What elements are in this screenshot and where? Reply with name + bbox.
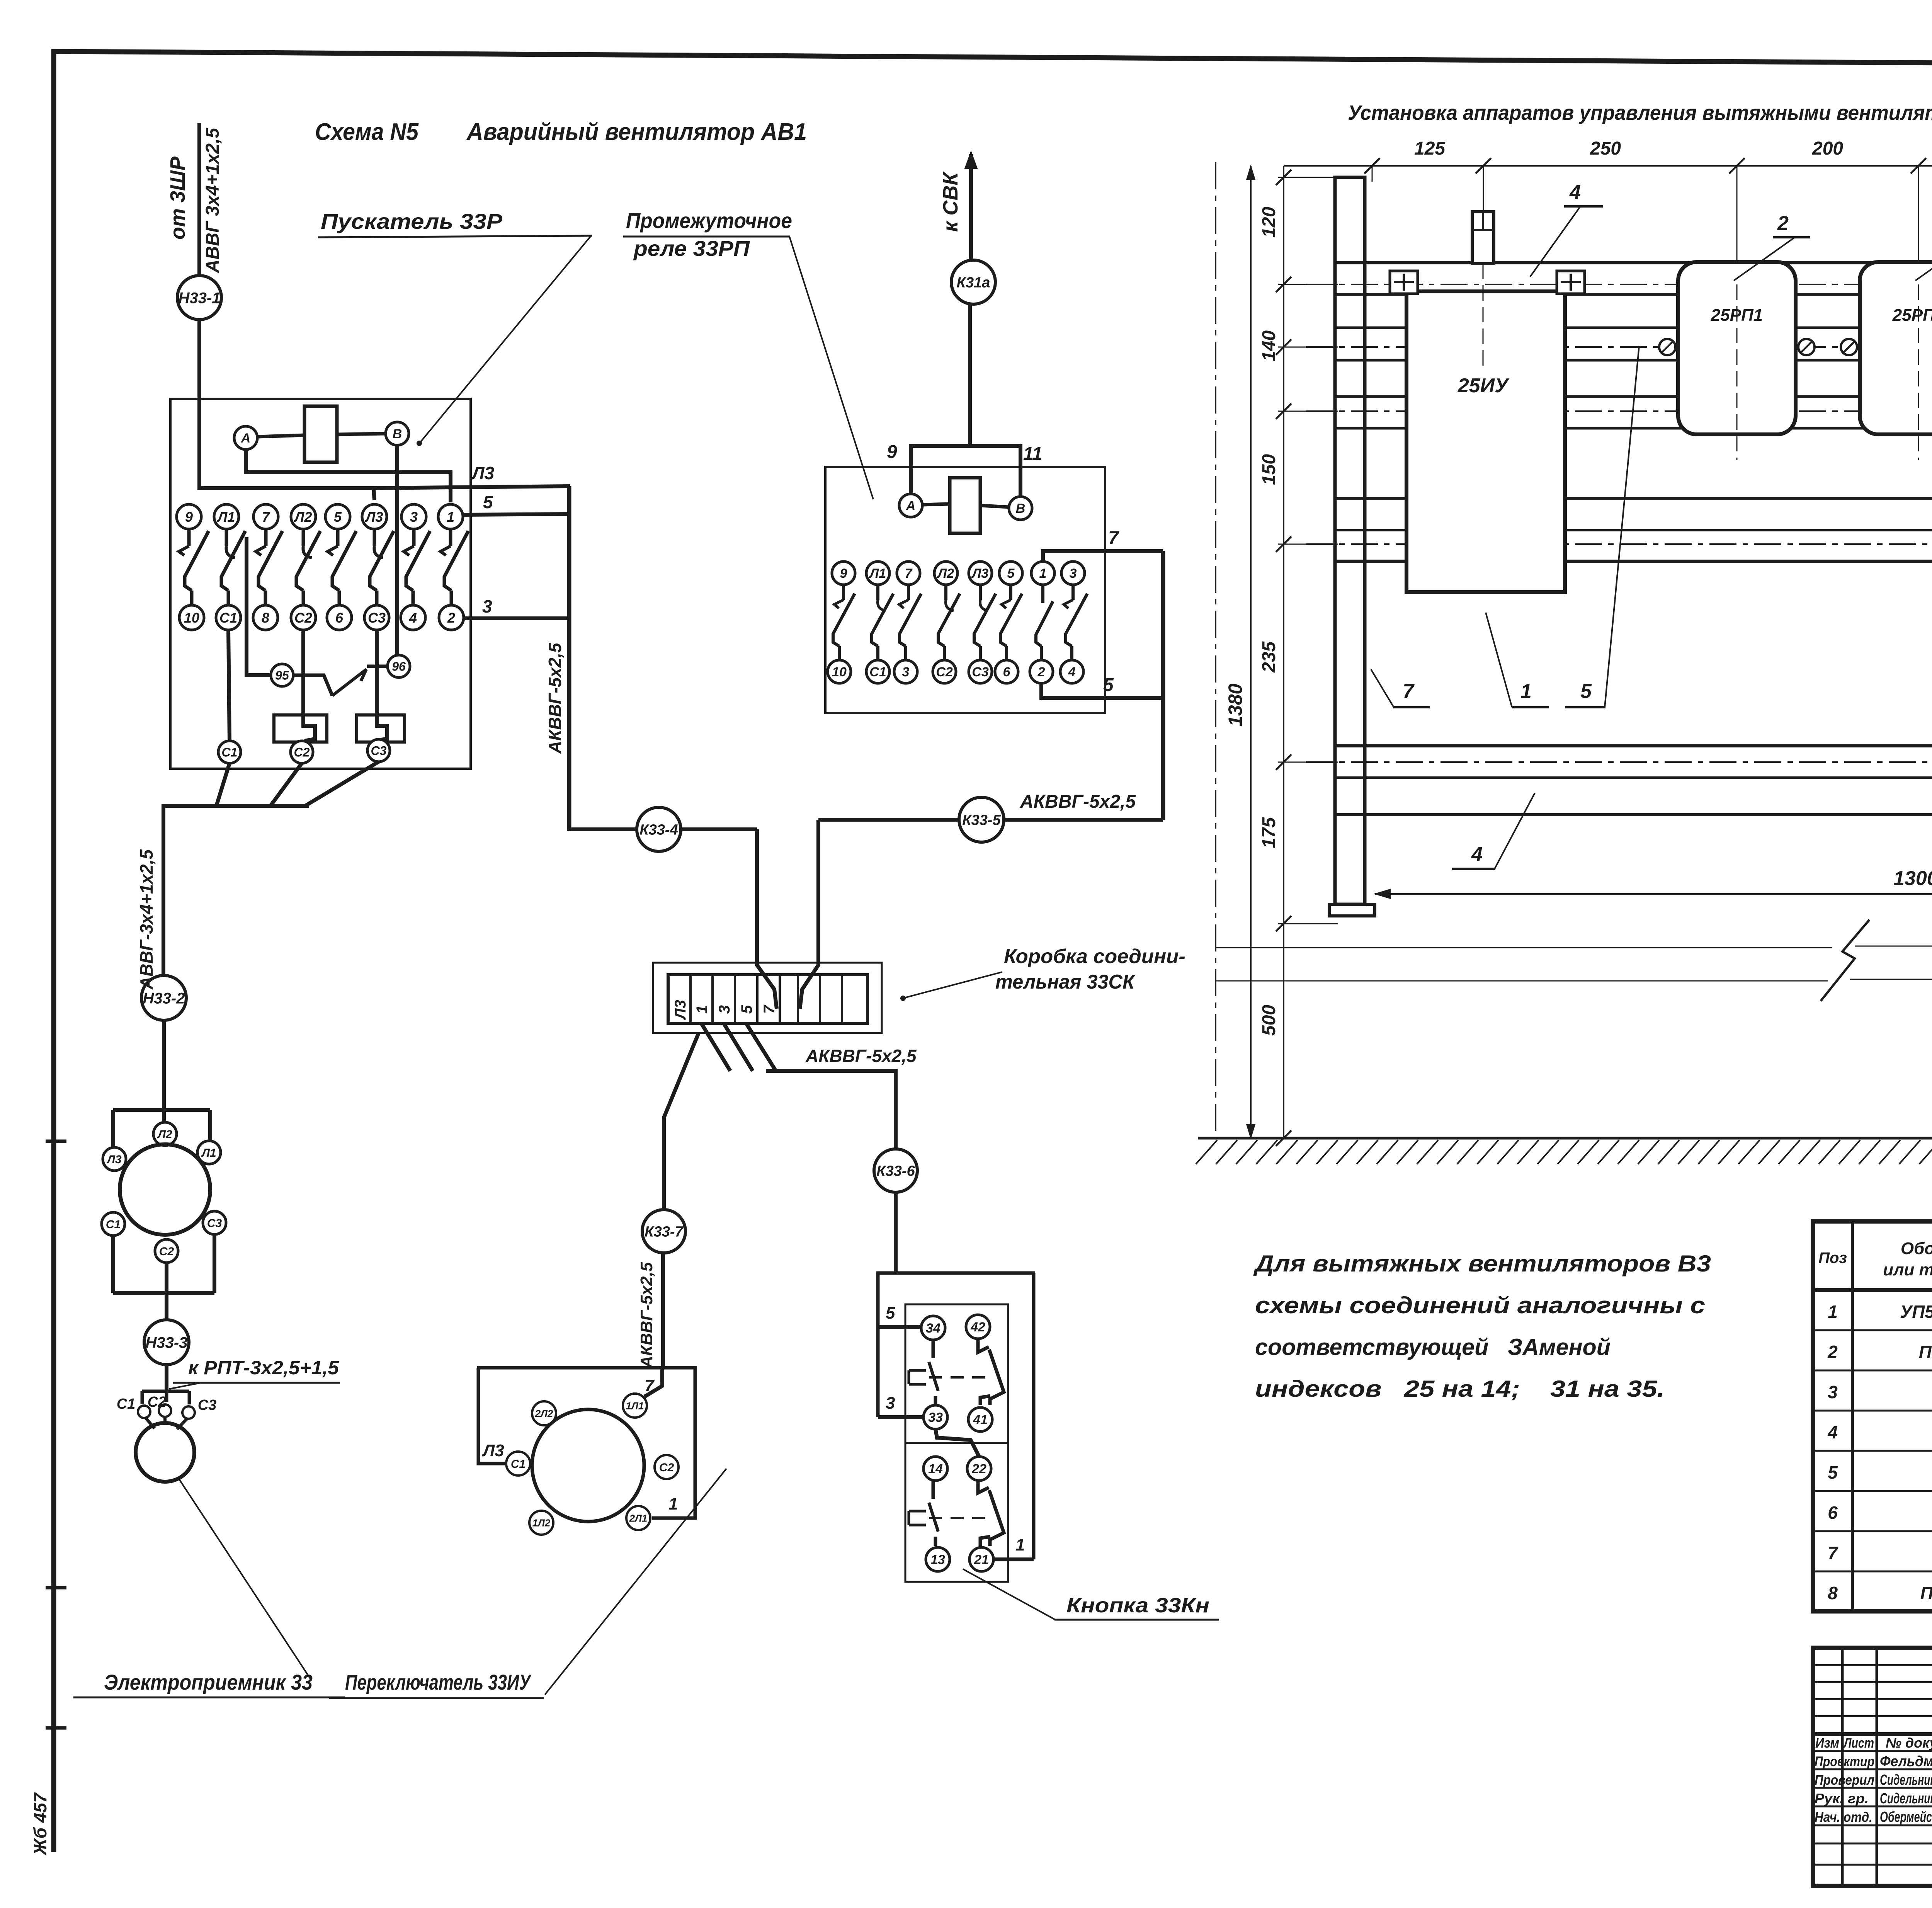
title block frame: [1813, 1648, 1932, 1886]
mounting rail band C: [1336, 395, 1932, 398]
svg-text:Поз: Поз: [1818, 1249, 1847, 1266]
terminal B: [386, 422, 409, 445]
extension lines from apparatus centers: [1372, 166, 1373, 182]
leader to starter box: [420, 237, 590, 443]
relay coil: [950, 478, 980, 533]
svg-text:34: 34: [926, 1321, 940, 1336]
svg-text:С3: С3: [207, 1217, 222, 1230]
svg-text:С1: С1: [117, 1396, 136, 1412]
cable bus to junction box: [567, 486, 571, 831]
wire B down to 96: [395, 445, 399, 655]
svg-text:С3: С3: [368, 610, 386, 626]
svg-text:от 3ШР: от 3ШР: [166, 156, 189, 240]
svg-text:Л3: Л3: [482, 1441, 504, 1460]
svg-text:13: 13: [930, 1552, 945, 1567]
cable marker N33-3: [144, 1320, 189, 1365]
svg-text:4: 4: [1569, 181, 1581, 204]
aux contact 96: [388, 655, 410, 677]
wires to motor feeder bus: [216, 763, 230, 806]
relay outgoing bus: [1161, 551, 1165, 820]
svg-text:25РП1: 25РП1: [1711, 306, 1763, 325]
motor terminal box top: [113, 1108, 210, 1112]
svg-text:Л3: Л3: [672, 1000, 689, 1020]
svg-text:Проверил: Проверил: [1815, 1772, 1874, 1788]
ground line: [1198, 1137, 1932, 1140]
outgoing wire 3: [464, 616, 571, 620]
svg-text:К33-6: К33-6: [876, 1163, 915, 1180]
cable marker N33-1: [177, 276, 221, 320]
svg-text:С1: С1: [219, 610, 237, 626]
svg-text:250: 250: [1590, 138, 1621, 159]
svg-text:5: 5: [738, 1005, 755, 1014]
svg-text:9: 9: [840, 566, 847, 581]
svg-text:Электроприемник 33: Электроприемник 33: [104, 1670, 313, 1694]
svg-text:41: 41: [973, 1413, 988, 1427]
relay contact poles: [842, 585, 845, 600]
button upper contact block: [932, 1340, 935, 1358]
svg-text:3: 3: [482, 596, 492, 616]
wire to motor terminal box: [162, 1020, 166, 1122]
svg-text:ПГВ-380: ПГВ-380: [1920, 1583, 1932, 1603]
arrow to SVK: [969, 154, 973, 260]
left wall channel: [1335, 177, 1365, 904]
wire down to junction box from K33-5: [816, 820, 820, 966]
selector switch body circle: [532, 1409, 644, 1522]
svg-text:Н33-3: Н33-3: [146, 1334, 188, 1351]
switch terminal C2: [655, 1455, 679, 1479]
25IU operating shaft: [1472, 212, 1494, 264]
svg-text:С1: С1: [222, 745, 238, 759]
button inner block: [905, 1304, 1008, 1582]
svg-text:Л2: Л2: [937, 566, 954, 581]
svg-text:500: 500: [1259, 1005, 1279, 1036]
selector switch 33IU box: [477, 1368, 695, 1518]
starter contact terminals top row: [177, 504, 201, 529]
svg-text:125: 125: [1414, 138, 1446, 159]
relay terminal B: [1009, 497, 1032, 520]
relay coil supply bus: [911, 446, 1020, 497]
fan motor circle: [136, 1423, 194, 1482]
svg-text:5: 5: [1580, 680, 1592, 703]
svg-text:1: 1: [1039, 566, 1047, 581]
svg-text:5: 5: [1103, 675, 1114, 695]
label Электроприемник 33: [179, 1478, 311, 1680]
motor terminal C2: [155, 1239, 178, 1263]
svg-text:7: 7: [1828, 1543, 1838, 1563]
svg-text:1: 1: [447, 509, 454, 525]
horizontal dimension line top: [1284, 165, 1932, 167]
svg-text:С1: С1: [511, 1458, 526, 1471]
title block upper small rows: [1813, 1664, 1932, 1666]
ground hatching: [1196, 1140, 1217, 1164]
wire 1 from button: [993, 1557, 1034, 1561]
cable marker N33-2: [141, 975, 186, 1020]
svg-text:11: 11: [1023, 444, 1043, 464]
frame tick marks: [46, 1140, 66, 1143]
svg-text:1380: 1380: [1225, 684, 1246, 727]
svg-text:С2: С2: [936, 665, 953, 679]
relay 33RP box: [825, 467, 1105, 713]
motor stator circle: [120, 1144, 210, 1235]
svg-text:1: 1: [694, 1005, 711, 1014]
svg-text:Нач. отд.: Нач. отд.: [1815, 1809, 1872, 1825]
starter 33R box: [170, 399, 471, 769]
svg-text:6: 6: [335, 610, 344, 626]
svg-text:к РПТ-3х2,5+1,5: к РПТ-3х2,5+1,5: [188, 1357, 339, 1379]
svg-text:С2: С2: [294, 610, 312, 626]
label Переключатель 33ИУ: [545, 1469, 726, 1695]
svg-text:25РП2: 25РП2: [1892, 306, 1932, 325]
svg-text:6: 6: [1003, 665, 1011, 679]
svg-text:4: 4: [1827, 1422, 1838, 1442]
svg-text:Жб 457: Жб 457: [30, 1792, 50, 1856]
left channel foot: [1329, 904, 1375, 916]
svg-text:к СВК: к СВК: [939, 171, 962, 232]
svg-text:Схема N5: Схема N5: [315, 119, 419, 145]
svg-text:8: 8: [1828, 1583, 1838, 1603]
svg-text:АВВГ-3х4+1х2,5: АВВГ-3х4+1х2,5: [136, 849, 156, 990]
svg-text:9: 9: [887, 442, 897, 462]
receiver terminals C1 C2 C3: [138, 1406, 150, 1418]
pole 1-2 closed contact: [1041, 585, 1044, 603]
outgoing wire L3: [374, 486, 570, 488]
leader to relay box: [789, 237, 873, 499]
svg-text:120: 120: [1259, 207, 1279, 238]
coil of starter: [304, 406, 337, 462]
svg-text:Рук. гр.: Рук. гр.: [1815, 1791, 1869, 1806]
terminal A: [234, 426, 257, 449]
motor terminal C1: [102, 1212, 125, 1236]
motor terminal C3: [203, 1211, 226, 1234]
wire: [197, 320, 201, 490]
wires into fan: [145, 1418, 155, 1428]
junction box 33SK outer: [653, 963, 882, 1033]
svg-text:Л1: Л1: [869, 566, 886, 581]
svg-text:6: 6: [1828, 1503, 1838, 1523]
25IU mounting tab right: [1557, 271, 1585, 294]
button terminal 21: [969, 1547, 993, 1571]
svg-text:К33-7: К33-7: [645, 1224, 684, 1240]
svg-text:Н33-2: Н33-2: [143, 990, 185, 1007]
svg-text:3: 3: [410, 509, 418, 525]
motor terminal L3: [103, 1147, 126, 1171]
break symbol: [1821, 920, 1869, 1001]
svg-text:3: 3: [716, 1005, 733, 1014]
svg-text:К33-4: К33-4: [639, 822, 678, 838]
svg-text:С2: С2: [294, 745, 310, 759]
svg-text:2Л2: 2Л2: [535, 1408, 553, 1419]
svg-text:200: 200: [1812, 138, 1843, 159]
svg-text:Установка аппаратов управления: Установка аппаратов управления вытяжными…: [1348, 101, 1932, 124]
wire C1 column: [228, 630, 230, 741]
dimension 1300: [1375, 893, 1932, 895]
wire 5 into button: [878, 1325, 921, 1329]
wire down to junction box: [755, 829, 759, 966]
svg-text:7: 7: [262, 509, 270, 525]
svg-text:1Л1: 1Л1: [626, 1400, 644, 1411]
svg-text:2Л1: 2Л1: [629, 1512, 648, 1524]
svg-text:Переключатель 33ИУ: Переключатель 33ИУ: [345, 1670, 532, 1694]
svg-text:95: 95: [275, 669, 289, 683]
wire A to coil: [257, 435, 304, 437]
svg-text:Сидельникова: Сидельникова: [1880, 1772, 1932, 1788]
svg-text:УП5412-С334: УП5412-С334: [1900, 1302, 1932, 1322]
svg-text:10: 10: [832, 665, 847, 679]
svg-text:А: А: [906, 499, 916, 513]
svg-text:2: 2: [447, 610, 455, 626]
aux contact 95: [271, 664, 293, 686]
svg-text:5: 5: [1007, 566, 1015, 581]
terminal strip of receiver: [142, 1389, 189, 1391]
button lower contact block: [932, 1481, 935, 1499]
relay contact terminals bottom row: [828, 660, 851, 683]
svg-text:Изм: Изм: [1815, 1735, 1839, 1751]
starter contact terminals bottom row: [179, 605, 204, 630]
svg-text:5: 5: [334, 509, 342, 525]
svg-text:14: 14: [928, 1462, 943, 1476]
svg-text:140: 140: [1259, 330, 1279, 361]
button terminal 42: [966, 1315, 990, 1339]
svg-text:С2: С2: [148, 1394, 167, 1410]
svg-text:С3: С3: [972, 665, 989, 679]
relay 25&#1056;&#1055;2 body: [1860, 262, 1932, 434]
svg-text:С2: С2: [659, 1461, 674, 1474]
cable to K33-7: [664, 1033, 699, 1210]
svg-text:АКВВГ-5х2,5: АКВВГ-5х2,5: [637, 1262, 656, 1368]
wire L1 column to 95: [247, 537, 271, 675]
switch terminal 2L1: [626, 1506, 650, 1530]
mounting rail band A: [1336, 261, 1932, 264]
incoming feeder from 3ShR: [197, 123, 201, 276]
svg-text:тельная 33СК: тельная 33СК: [995, 971, 1136, 993]
specification table header line: [1813, 1288, 1932, 1292]
svg-text:1Л2: 1Л2: [532, 1517, 551, 1528]
specification table frame: [1813, 1221, 1932, 1611]
svg-text:Н33-1: Н33-1: [179, 289, 221, 306]
svg-text:или тип изделия: или тип изделия: [1883, 1260, 1932, 1279]
wire 7 from relay: [1043, 551, 1163, 562]
svg-text:реле 33РП: реле 33РП: [633, 236, 750, 260]
svg-text:2: 2: [1777, 212, 1789, 235]
svg-text:Проектир: Проектир: [1815, 1753, 1874, 1769]
incoming bus to L3: [197, 488, 374, 500]
junction box cell dividers: [689, 975, 692, 1023]
25IU mounting tab left: [1390, 271, 1418, 294]
svg-text:С3: С3: [371, 744, 387, 758]
svg-text:150: 150: [1259, 454, 1279, 485]
mounting rail band B: [1336, 327, 1932, 329]
25IU centerline: [1483, 264, 1484, 369]
svg-text:25ИУ: 25ИУ: [1458, 374, 1510, 397]
svg-text:4: 4: [409, 610, 417, 626]
wire C2 down: [165, 1263, 168, 1319]
svg-text:8: 8: [262, 610, 269, 626]
svg-text:Сидельникова: Сидельникова: [1880, 1791, 1932, 1807]
svg-text:С1: С1: [106, 1218, 121, 1231]
cable marker K33-5: [959, 797, 1004, 842]
svg-text:Л3: Л3: [365, 509, 383, 525]
svg-text:3: 3: [1070, 566, 1077, 581]
title block left columns: [1841, 1648, 1844, 1886]
svg-text:С3: С3: [198, 1397, 217, 1413]
button terminal 22: [967, 1457, 991, 1481]
svg-text:7: 7: [1403, 680, 1415, 703]
svg-text:96: 96: [392, 660, 406, 674]
vertical chain dimension line: [1283, 166, 1284, 1138]
svg-text:Промежуточное: Промежуточное: [626, 208, 792, 233]
svg-text:Пускатель 33Р: Пускатель 33Р: [321, 209, 503, 233]
svg-text:1: 1: [1828, 1302, 1838, 1322]
button terminal 14: [923, 1457, 947, 1481]
specification table column lines: [1851, 1221, 1854, 1611]
svg-text:7: 7: [645, 1376, 655, 1395]
button terminal 13: [926, 1547, 950, 1571]
svg-text:175: 175: [1259, 817, 1279, 848]
motor terminal L2: [153, 1122, 177, 1145]
label Кнопка 33Кн: [963, 1569, 1055, 1620]
svg-text:5: 5: [1828, 1462, 1838, 1482]
svg-text:22: 22: [971, 1462, 986, 1476]
outgoing wire 5: [463, 514, 571, 515]
svg-text:1: 1: [1520, 680, 1532, 703]
svg-text:Л3: Л3: [106, 1153, 122, 1166]
svg-text:схемы соединений аналогичны с: схемы соединений аналогичны с: [1255, 1292, 1705, 1318]
svg-text:7: 7: [1108, 528, 1119, 548]
relay 25&#1056;&#1055;2 mounting screws: [1841, 339, 1857, 355]
dimension extension lines: [1278, 177, 1338, 178]
wire to K33-5: [1005, 818, 1163, 822]
heater element left: [274, 715, 327, 742]
mounting rail band E: [1336, 744, 1932, 747]
svg-text:К31а: К31а: [957, 275, 990, 291]
svg-text:2: 2: [1827, 1342, 1838, 1362]
svg-text:№ докум: № докум: [1886, 1735, 1932, 1751]
svg-text:1: 1: [1015, 1535, 1025, 1554]
heater step wire C3: [377, 630, 387, 740]
relay 25&#1056;&#1055;1 body: [1678, 262, 1796, 434]
svg-text:4: 4: [1068, 665, 1076, 679]
outgoing C1: [218, 741, 241, 763]
relay 25&#1056;&#1055;1 centerline: [1736, 284, 1738, 460]
svg-text:Обермейстер: Обермейстер: [1880, 1809, 1932, 1825]
cable to K33-6: [766, 1071, 896, 1149]
svg-text:Обозначение: Обозначение: [1901, 1239, 1932, 1258]
svg-text:АКВВГ-5х2,5: АКВВГ-5х2,5: [805, 1046, 917, 1066]
svg-text:С2: С2: [159, 1245, 174, 1258]
heater element right: [357, 715, 405, 742]
outgoing C3: [367, 739, 390, 762]
svg-text:Кнопка 33Кн: Кнопка 33Кн: [1066, 1594, 1209, 1617]
svg-text:7: 7: [905, 566, 913, 581]
svg-text:Л1: Л1: [201, 1147, 216, 1159]
jumper 33 to 22: [935, 1429, 979, 1457]
motor terminal L1: [197, 1141, 221, 1164]
svg-text:ПМЕ-081: ПМЕ-081: [1919, 1342, 1932, 1362]
overall dimension 1380: [1250, 166, 1252, 1138]
svg-text:1300: 1300: [1893, 867, 1932, 890]
svg-text:А: А: [241, 431, 251, 446]
svg-text:Л1: Л1: [217, 509, 235, 525]
control selector 25IU body: [1406, 291, 1565, 592]
wire 5 from relay: [1041, 683, 1163, 698]
wire A down right to contact 1: [246, 449, 451, 502]
floor reference lines with break: [1216, 947, 1832, 948]
cable marker K33-6: [874, 1149, 917, 1192]
starter contact poles: [187, 529, 191, 546]
push button 33Kn outer box: [876, 1273, 880, 1417]
svg-text:Л2: Л2: [294, 509, 312, 525]
svg-text:Аварийный вентилятор АВ1: Аварийный вентилятор АВ1: [466, 119, 807, 145]
svg-text:Фельдман: Фельдман: [1880, 1753, 1932, 1770]
svg-text:4: 4: [1471, 843, 1483, 866]
cable marker K33-7: [642, 1210, 685, 1253]
switch terminal C1: [506, 1452, 530, 1476]
svg-text:К33-5: К33-5: [962, 812, 1001, 829]
svg-text:В: В: [1016, 501, 1026, 516]
svg-text:Лист: Лист: [1843, 1735, 1874, 1751]
wires leaving junction box bottom: [701, 1023, 730, 1071]
switch terminal 1L1: [623, 1394, 647, 1418]
svg-text:5: 5: [483, 492, 493, 512]
svg-text:3: 3: [886, 1394, 895, 1413]
switch terminal 2L2: [532, 1401, 556, 1425]
svg-text:5: 5: [886, 1304, 895, 1322]
junction box 33SK terminal strip: [668, 975, 867, 1023]
svg-text:В: В: [393, 427, 402, 441]
svg-text:индексов 25 на 14; 31 на: индексов 25 на 14; 31 на 35.: [1255, 1376, 1665, 1402]
svg-text:42: 42: [970, 1320, 985, 1334]
wire coil to B: [337, 434, 386, 434]
svg-text:АКВВГ-5х2,5: АКВВГ-5х2,5: [545, 642, 565, 754]
specification table row lines: [1813, 1329, 1932, 1331]
svg-text:Л2: Л2: [157, 1128, 172, 1141]
svg-text:9: 9: [185, 509, 193, 525]
wall reference line: [1215, 162, 1216, 1138]
relay 25&#1056;&#1055;1 mounting screws: [1659, 339, 1675, 355]
svg-text:АКВВГ-5х2,5: АКВВГ-5х2,5: [1020, 791, 1136, 812]
relay terminal A: [899, 494, 922, 517]
button terminal 33: [923, 1405, 947, 1429]
wire 3 into button: [878, 1415, 923, 1419]
svg-text:Для вытяжных вентиляторов В3: Для вытяжных вентиляторов В3: [1253, 1251, 1711, 1277]
motor terminal box bottom: [111, 1236, 115, 1293]
svg-text:Л3: Л3: [971, 566, 988, 581]
svg-text:С1: С1: [869, 665, 886, 679]
svg-text:235: 235: [1259, 641, 1279, 673]
svg-text:21: 21: [974, 1552, 989, 1567]
svg-text:33: 33: [928, 1410, 943, 1425]
heater step wire C2: [303, 630, 315, 741]
cable marker K33-4: [569, 827, 637, 831]
outgoing C2: [291, 741, 313, 763]
mounting rail band D: [1336, 497, 1932, 500]
svg-text:соответствующей ЗАменой: соответствующей ЗАменой: [1255, 1334, 1611, 1360]
button terminal 34: [921, 1316, 945, 1340]
relay 25&#1056;&#1055;2 centerline: [1918, 284, 1919, 460]
svg-text:3: 3: [902, 665, 910, 679]
wires entering junction box: [757, 965, 777, 1009]
riser to K31a: [968, 305, 972, 446]
svg-text:10: 10: [184, 610, 199, 626]
svg-text:2: 2: [1037, 665, 1045, 679]
svg-text:1: 1: [668, 1494, 678, 1513]
svg-text:3: 3: [1828, 1382, 1838, 1402]
svg-text:АВВГ 3х4+1х2,5: АВВГ 3х4+1х2,5: [202, 128, 223, 273]
cable marker K31a: [951, 260, 995, 304]
thermal trip lever: [293, 675, 332, 696]
switch terminal 1L2: [529, 1511, 553, 1535]
svg-text:Коробка соедини-: Коробка соедини-: [1004, 945, 1185, 968]
